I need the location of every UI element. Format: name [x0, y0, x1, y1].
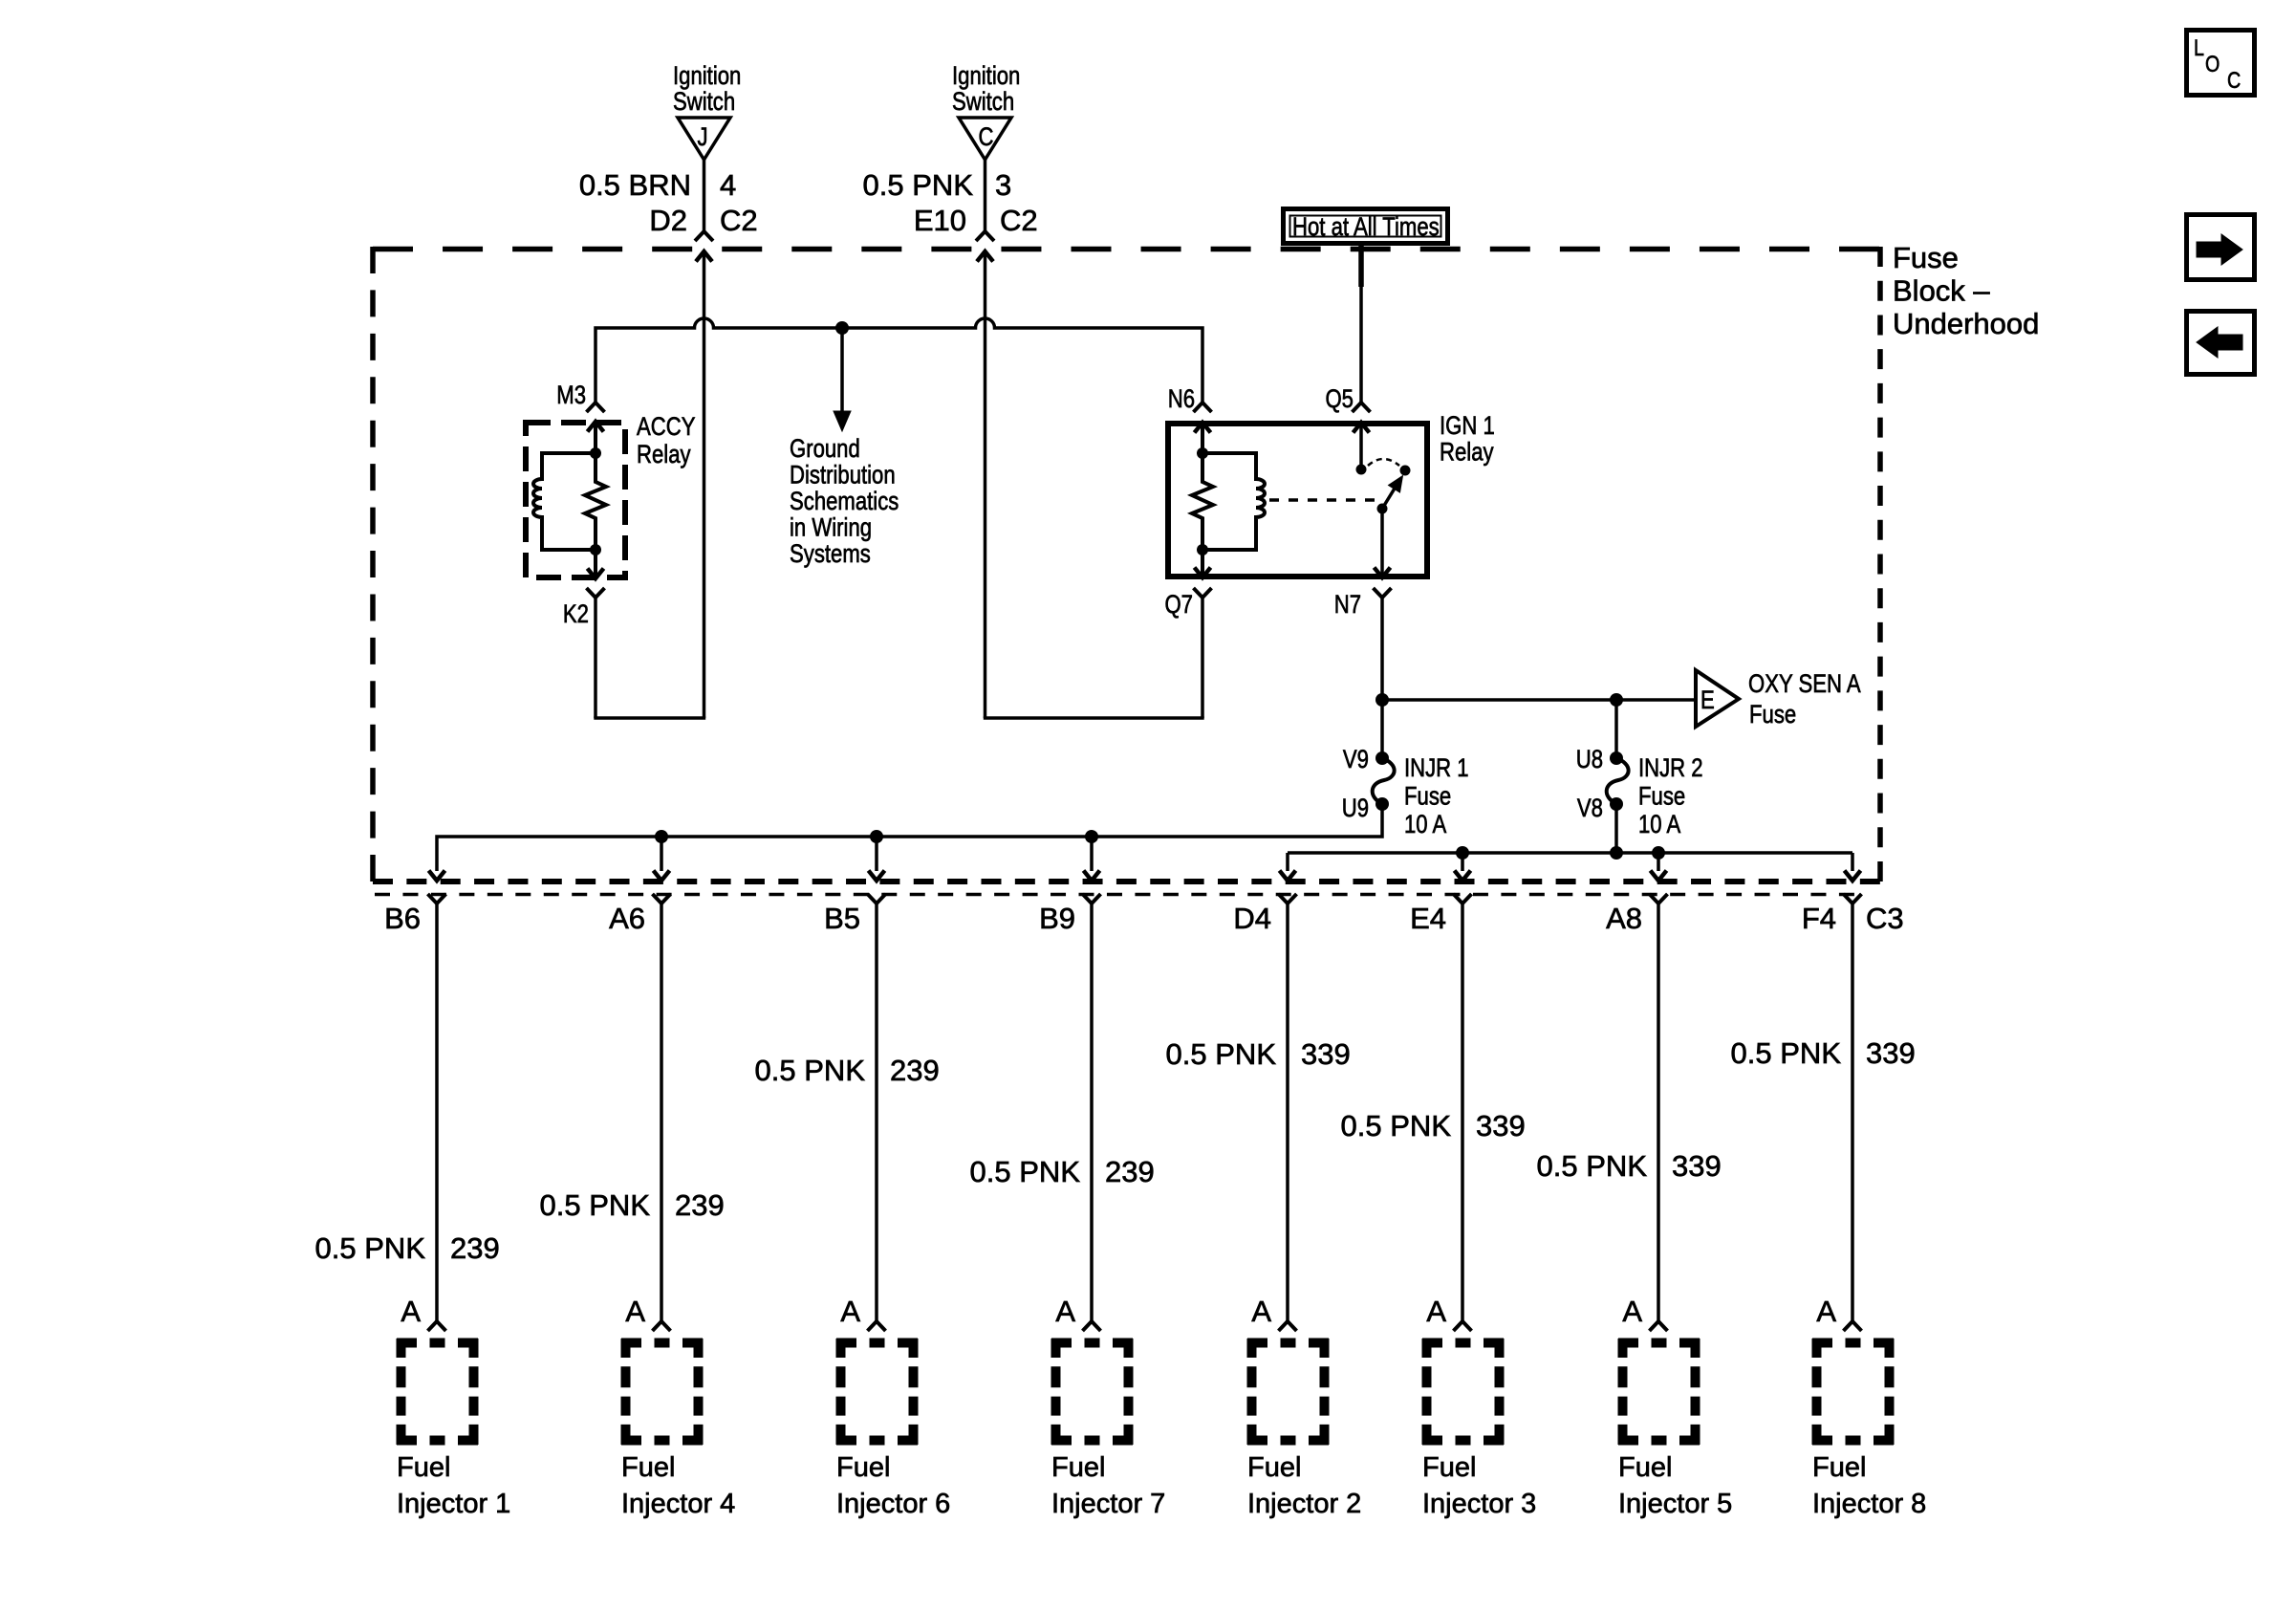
ignition switch connector triangle C	[959, 118, 1011, 160]
fuse INJR 2 (U8/V8)	[1607, 751, 1629, 811]
fuel injector 2 dashed box	[1247, 1339, 1329, 1445]
switch contact node	[1400, 466, 1411, 476]
wire to ground distribution (arrow)	[840, 328, 844, 413]
label INJR 1 Fuse 10 A	[1404, 754, 1469, 839]
svg-text:Fuel: Fuel	[621, 1452, 675, 1483]
switch pivot node and wire to N7	[1377, 504, 1388, 514]
svg-text:3: 3	[995, 168, 1011, 202]
IGN 1 relay box	[1168, 424, 1427, 577]
svg-text:N7: N7	[1334, 591, 1361, 620]
svg-text:Block –: Block –	[1893, 274, 1990, 308]
wire to fuel injector 6	[875, 903, 878, 1321]
Hot at All Times box	[1284, 209, 1448, 244]
wire to fuel injector 1	[435, 903, 439, 1321]
svg-text:239: 239	[890, 1054, 940, 1087]
svg-text:0.5 PNK: 0.5 PNK	[1731, 1036, 1842, 1070]
svg-text:Fuel: Fuel	[1618, 1452, 1672, 1483]
svg-text:ACCY: ACCY	[637, 413, 695, 442]
svg-text:0.5 PNK: 0.5 PNK	[540, 1188, 651, 1222]
svg-text:Injector 7: Injector 7	[1051, 1489, 1165, 1519]
svg-text:Q5: Q5	[1325, 385, 1354, 414]
arrows into fuse block border	[429, 871, 1861, 882]
svg-text:Fuse: Fuse	[1893, 241, 1959, 274]
wire Q7 to C wire	[1201, 598, 1204, 718]
IGN 1 relay switch common (Q5 leg)	[1359, 423, 1363, 469]
fuel injector 6 dashed box	[836, 1339, 918, 1445]
fuel injector 3 dashed box	[1422, 1339, 1504, 1445]
svg-text:239: 239	[675, 1188, 725, 1222]
fuel injector 7 dashed box	[1051, 1339, 1133, 1445]
svg-text:Fuse: Fuse	[1749, 701, 1796, 729]
wire to fuel injector 5	[1657, 903, 1660, 1321]
svg-text:O: O	[2205, 51, 2220, 76]
fuse INJR 1 (V9/U9)	[1373, 751, 1395, 811]
terminal A of fuel injector 5	[1650, 1321, 1668, 1331]
dashed throw arc	[1368, 459, 1399, 466]
svg-text:OXY SEN A: OXY SEN A	[1748, 670, 1861, 699]
svg-text:339: 339	[1866, 1036, 1916, 1070]
junction node U8 feed	[1610, 693, 1623, 707]
terminal M3 of ACCY relay	[587, 403, 605, 412]
wire to fuel injector 8	[1851, 903, 1854, 1321]
svg-text:A: A	[1622, 1295, 1642, 1328]
terminal A of fuel injector 7	[1083, 1321, 1101, 1331]
svg-text:A: A	[625, 1295, 645, 1328]
svg-text:Ground: Ground	[790, 435, 860, 464]
branch wires to border	[1462, 853, 1658, 871]
terminal Q7 of IGN 1 relay	[1194, 588, 1212, 598]
svg-text:C2: C2	[720, 204, 758, 237]
svg-text:Schematics: Schematics	[790, 488, 899, 516]
wire to fuel injector 4	[660, 903, 663, 1321]
ACCY relay dashed box	[526, 423, 625, 577]
svg-text:0.5 PNK: 0.5 PNK	[970, 1155, 1081, 1188]
svg-text:Relay: Relay	[637, 441, 691, 469]
svg-text:339: 339	[1301, 1037, 1351, 1071]
wire J from ignition switch to fuse block	[703, 160, 706, 231]
terminal A of fuel injector 4	[653, 1321, 671, 1331]
svg-text:E10: E10	[914, 204, 966, 237]
svg-text:Fuel: Fuel	[836, 1452, 890, 1483]
svg-text:K2: K2	[563, 600, 589, 629]
svg-text:A: A	[1251, 1295, 1271, 1328]
OXY SEN A fuse pointer triangle E	[1696, 670, 1739, 727]
wire K2 to J wire	[594, 598, 597, 718]
svg-text:A: A	[1055, 1295, 1075, 1328]
svg-text:F4: F4	[1802, 902, 1836, 935]
connector terminal D4	[1279, 894, 1297, 903]
svg-text:Q7: Q7	[1164, 591, 1193, 620]
svg-text:Injector 6: Injector 6	[836, 1489, 950, 1519]
svg-text:Fuse: Fuse	[1404, 783, 1451, 812]
svg-text:INJR 1: INJR 1	[1404, 754, 1469, 783]
svg-text:Injector 4: Injector 4	[621, 1489, 735, 1519]
left arrow navigation box	[2187, 312, 2255, 375]
svg-text:B9: B9	[1039, 902, 1075, 935]
svg-text:Injector 5: Injector 5	[1618, 1489, 1732, 1519]
svg-text:10 A: 10 A	[1404, 811, 1447, 839]
junction node on bus	[835, 321, 849, 335]
label Fuel Injector 6	[836, 1452, 950, 1519]
svg-text:A: A	[1816, 1295, 1836, 1328]
svg-text:339: 339	[1672, 1149, 1722, 1183]
svg-text:A8: A8	[1606, 902, 1642, 935]
wire to fuel injector 2	[1286, 903, 1289, 1321]
svg-text:C2: C2	[1000, 204, 1038, 237]
fuse block border (dashed)	[373, 247, 1880, 252]
label Fuel Injector 2	[1247, 1452, 1361, 1519]
svg-text:U9: U9	[1342, 795, 1369, 823]
label Ground Distribution Schematics in Wiring Systems	[790, 435, 899, 569]
connector terminal F4	[1844, 894, 1862, 903]
svg-text:0.5 PNK: 0.5 PNK	[1537, 1149, 1648, 1183]
LOC reference box	[2187, 31, 2255, 96]
svg-text:IGN 1: IGN 1	[1440, 412, 1495, 441]
svg-text:239: 239	[450, 1231, 500, 1265]
terminal A of fuel injector 8	[1844, 1321, 1862, 1331]
svg-text:Fuel: Fuel	[1422, 1452, 1476, 1483]
svg-text:L: L	[2194, 34, 2204, 60]
svg-text:U8: U8	[1576, 746, 1603, 774]
right arrow navigation box	[2187, 215, 2255, 280]
wire to fuel injector 3	[1461, 903, 1464, 1321]
svg-text:A6: A6	[609, 902, 645, 935]
svg-text:J: J	[698, 123, 708, 152]
svg-text:Ignition: Ignition	[952, 62, 1020, 91]
connector terminal B5	[868, 894, 886, 903]
svg-text:0.5 PNK: 0.5 PNK	[863, 168, 974, 202]
svg-text:V9: V9	[1343, 746, 1369, 774]
svg-text:C3: C3	[1866, 902, 1904, 935]
label Fuel Injector 5	[1618, 1452, 1732, 1519]
svg-text:in Wiring: in Wiring	[790, 514, 872, 543]
label Fuel Injector 1	[397, 1452, 510, 1519]
svg-text:Hot at All Times: Hot at All Times	[1292, 213, 1440, 242]
svg-text:D4: D4	[1233, 902, 1271, 935]
svg-text:339: 339	[1476, 1109, 1526, 1143]
fuel injector 1 dashed box	[397, 1339, 478, 1445]
fuel injector 5 dashed box	[1618, 1339, 1700, 1445]
ACCY relay coil	[533, 453, 596, 550]
svg-text:0.5 PNK: 0.5 PNK	[755, 1054, 866, 1087]
dashed actuation link coil to switch	[1269, 498, 1376, 502]
bus from INJR 2 fuse to injectors 2/3/5/8	[1288, 804, 1852, 871]
svg-text:Injector 3: Injector 3	[1422, 1489, 1536, 1519]
label Fuel Injector 7	[1051, 1452, 1165, 1519]
svg-text:Injector 2: Injector 2	[1247, 1489, 1361, 1519]
svg-text:E: E	[1700, 686, 1715, 715]
terminal N7 of IGN 1 relay	[1374, 588, 1392, 598]
ignition switch connector triangle J	[678, 118, 730, 160]
svg-text:A: A	[401, 1295, 421, 1328]
svg-text:Fuel: Fuel	[1247, 1452, 1301, 1483]
branch wires to border	[661, 837, 1092, 871]
svg-text:D2: D2	[649, 204, 687, 237]
svg-text:0.5 PNK: 0.5 PNK	[315, 1231, 426, 1265]
svg-text:A: A	[1426, 1295, 1446, 1328]
svg-text:M3: M3	[556, 381, 586, 410]
wire to fuel injector 7	[1090, 903, 1094, 1321]
bus from INJR 1 fuse to injectors 1/4/6/7	[437, 804, 1382, 871]
svg-text:Distribution: Distribution	[790, 462, 896, 490]
svg-text:Relay: Relay	[1440, 439, 1494, 468]
svg-text:Fuel: Fuel	[397, 1452, 450, 1483]
svg-text:0.5 BRN: 0.5 BRN	[579, 168, 691, 202]
svg-text:Injector 1: Injector 1	[397, 1489, 510, 1519]
svg-text:Fuel: Fuel	[1812, 1452, 1866, 1483]
wire U8 branch down to INJR 2 fuse	[1614, 700, 1618, 758]
connector terminal E4	[1454, 894, 1472, 903]
IGN 1 relay resistor (N6 leg)	[1192, 423, 1213, 577]
wire C from ignition switch to fuse block	[984, 160, 987, 231]
terminal K2 of ACCY relay	[587, 588, 605, 598]
ACCY relay resistor	[585, 422, 606, 578]
connector terminal A6	[653, 894, 671, 903]
bus junction nodes	[1456, 846, 1665, 860]
svg-text:INJR 2: INJR 2	[1638, 754, 1703, 783]
terminal A of fuel injector 3	[1454, 1321, 1472, 1331]
wire from Hot at All Times to IGN 1 relay (Q5)	[1358, 246, 1364, 287]
svg-text:N6: N6	[1168, 385, 1195, 414]
svg-text:Underhood: Underhood	[1893, 307, 2039, 340]
svg-text:239: 239	[1105, 1155, 1155, 1188]
svg-text:C: C	[979, 123, 994, 152]
fuel injector 8 dashed box	[1812, 1339, 1894, 1445]
svg-text:0.5 PNK: 0.5 PNK	[1341, 1109, 1452, 1143]
svg-text:Fuel: Fuel	[1051, 1452, 1105, 1483]
svg-text:Fuse: Fuse	[1638, 783, 1685, 812]
label INJR 2 Fuse 10 A	[1638, 754, 1703, 839]
svg-text:A: A	[840, 1295, 860, 1328]
svg-text:E4: E4	[1410, 902, 1446, 935]
connector terminal B6	[428, 894, 446, 903]
terminal A of fuel injector 6	[868, 1321, 886, 1331]
switch lever with arrowhead	[1382, 488, 1396, 509]
label Fuel Injector 3	[1422, 1452, 1536, 1519]
bus junction nodes	[655, 830, 1098, 843]
svg-text:Injector 8: Injector 8	[1812, 1489, 1926, 1519]
label Fuel Injector 4	[621, 1452, 735, 1519]
fuel injector 4 dashed box	[621, 1339, 703, 1445]
IGN 1 relay coil	[1202, 453, 1265, 550]
svg-text:Switch: Switch	[952, 88, 1014, 117]
svg-text:B6: B6	[384, 902, 421, 935]
svg-text:Switch: Switch	[673, 88, 735, 117]
wire N7 down to fuse feed	[1380, 598, 1384, 758]
label Fuel Injector 8	[1812, 1452, 1926, 1519]
svg-text:C: C	[2227, 67, 2241, 93]
svg-text:Systems: Systems	[790, 540, 871, 569]
wire N7 junction to OXY SEN A fuse	[1382, 698, 1696, 702]
bus wire from ACCY relay M3 to IGN relay N6 (hops over J and C wires)	[596, 318, 1202, 403]
terminal N6 of IGN 1 relay	[1194, 403, 1212, 412]
svg-text:Ignition: Ignition	[673, 62, 741, 91]
connector C2/C3 inline connector dashed line	[375, 893, 1854, 897]
svg-text:V8: V8	[1577, 795, 1603, 823]
junction node N7 feed	[1375, 693, 1389, 707]
svg-text:0.5 PNK: 0.5 PNK	[1166, 1037, 1277, 1071]
svg-text:10 A: 10 A	[1638, 811, 1681, 839]
terminal A of fuel injector 2	[1279, 1321, 1297, 1331]
terminal A of fuel injector 1	[428, 1321, 446, 1331]
svg-text:4: 4	[720, 168, 736, 202]
svg-text:B5: B5	[824, 902, 860, 935]
connector terminal B9	[1083, 894, 1101, 903]
terminal Q5 of IGN 1 relay	[1353, 403, 1371, 412]
connector terminal A8	[1650, 894, 1668, 903]
